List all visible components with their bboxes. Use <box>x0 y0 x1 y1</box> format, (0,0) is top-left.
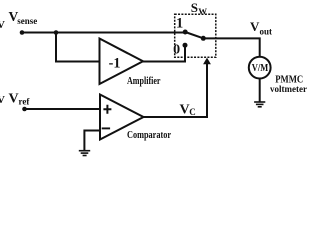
voltmeter U3 PMMC circle V/M <box>249 57 271 79</box>
svg-text:V: V <box>0 19 5 31</box>
op-amp U2 comparator triangle <box>100 95 144 140</box>
label Comparator <box>127 130 171 141</box>
wire Vref to comparator plus input <box>25 108 101 110</box>
switch SW dashed box <box>175 14 216 57</box>
label Vout <box>250 19 272 36</box>
ground under comparator minus input <box>79 151 90 156</box>
wire comparator minus input to ground <box>84 131 99 151</box>
label contact 0 <box>173 42 180 57</box>
label Vsense <box>9 9 38 26</box>
node Vref terminal dot <box>22 107 27 112</box>
label Vref <box>9 92 31 107</box>
label Amplifier <box>127 76 161 87</box>
label contact 1 <box>176 15 183 31</box>
svg-text:V: V <box>180 103 190 118</box>
svg-text:W: W <box>198 6 207 16</box>
svg-text:0: 0 <box>173 42 180 57</box>
wire amplifier output to switch contact 0 <box>143 45 185 62</box>
label SW <box>191 0 207 16</box>
ghost mark left edge top <box>0 19 5 31</box>
svg-text:-1: -1 <box>109 56 121 72</box>
ghost mark left edge bottom <box>0 94 5 106</box>
svg-text:sense: sense <box>17 16 37 26</box>
svg-text:out: out <box>260 27 273 37</box>
node switch pole dot <box>201 36 206 41</box>
svg-text:Comparator: Comparator <box>127 130 171 141</box>
svg-text:Amplifier: Amplifier <box>127 76 161 87</box>
wire comparator output to switch control <box>144 64 208 118</box>
node switch contact 1 dot <box>183 30 188 35</box>
node switch contact 0 dot <box>183 43 188 48</box>
svg-text:V: V <box>250 19 260 34</box>
value label -1 inside amplifier <box>109 56 121 72</box>
wire pole to voltmeter <box>203 38 259 57</box>
svg-text:PMMC: PMMC <box>275 74 303 85</box>
pin minus symbol <box>102 127 110 129</box>
svg-text:V: V <box>0 94 5 106</box>
svg-text:1: 1 <box>176 15 183 31</box>
svg-text:V: V <box>9 92 19 107</box>
node Vsense terminal dot <box>20 30 25 35</box>
svg-text:ref: ref <box>19 96 31 106</box>
wire voltmeter to ground <box>259 78 261 101</box>
label VC <box>180 103 196 118</box>
node junction on Vsense wire <box>54 30 59 35</box>
svg-text:S: S <box>191 0 198 15</box>
wire Vsense horizontal <box>22 32 185 34</box>
svg-text:V/M: V/M <box>252 63 269 74</box>
ground under voltmeter <box>254 102 265 107</box>
pin plus symbol <box>103 105 111 114</box>
arrowhead control arrow into SW <box>203 58 211 65</box>
op-amp U1 amplifier triangle <box>100 39 144 85</box>
svg-text:C: C <box>189 107 196 117</box>
wire junction down and to amplifier input <box>56 33 100 62</box>
switch blade from contact 1 to pole <box>185 32 203 38</box>
label PMMC voltmeter <box>270 74 308 95</box>
svg-text:voltmeter: voltmeter <box>270 85 308 95</box>
